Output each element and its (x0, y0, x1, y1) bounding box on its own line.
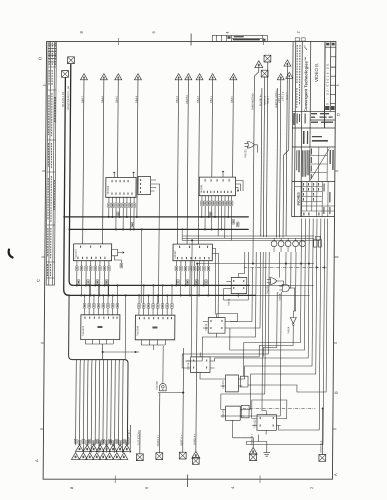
zone tick top x264 (262, 38, 264, 45)
connector triangle DB4.2 (196, 74, 203, 80)
svg-text:DB4 RA: DB4 RA (186, 95, 189, 104)
svg-text:MUX 4: MUX 4 (286, 92, 289, 100)
mesh gate output g3 down (221, 292, 281, 416)
svg-text:CRT 2 4: CRT 2 4 (282, 91, 285, 101)
IC U4 bottom pins flags wires (176, 261, 208, 267)
connector square SYNC-D (261, 70, 268, 77)
INCHES tolerance block grid (294, 182, 334, 217)
connector square SYNC (250, 454, 257, 461)
FF U41 stubs (186, 353, 221, 380)
IC U3 right lower stub wire (114, 256, 121, 263)
right mesh L path r1 (244, 219, 302, 377)
mesh left vertical s1 (238, 252, 244, 274)
connector square CLK-C (264, 55, 271, 62)
FF U42 stubs (220, 379, 242, 386)
IC U5 internal pin text (84, 317, 117, 328)
svg-text:74S163: 74S163 (107, 185, 110, 194)
mesh left vertical s2 (224, 252, 249, 300)
IC U3 right side box (112, 250, 118, 256)
bus AA1 horizontal (69, 294, 255, 296)
top document control table (212, 35, 267, 41)
junction dots U2 buses (201, 216, 203, 218)
FF U43 stubs (221, 410, 245, 438)
mesh left vertical s3 (252, 237, 254, 264)
IC U6 top wires to buses (139, 285, 172, 303)
oscillator circle 1 (271, 241, 277, 247)
svg-text:DB4 1: DB4 1 (210, 95, 213, 103)
FF U40 74S74 body (208, 318, 225, 334)
IC U2 pin net flags (201, 201, 204, 206)
IC U6 internal pin text (139, 317, 172, 329)
svg-text:RA BUS L 1/5: RA BUS L 1/5 (62, 91, 65, 107)
FF U40 stubs (203, 314, 230, 338)
wire fan lines to bottom connectors (76, 360, 124, 453)
wire DB4.0 (232, 79, 235, 177)
net box on bus2 right of U2 (232, 220, 235, 225)
right mesh L path r2 (230, 219, 306, 351)
wire DB4.4 (137, 79, 138, 217)
dash-dot net lower (243, 408, 316, 410)
bus flags above AA0 under U3 (77, 280, 80, 285)
punch/pen mark left edge (9, 250, 13, 258)
IC U1 bottom pins with flags (109, 197, 134, 203)
bottom triangle row1 pin numbers (74, 439, 128, 444)
oscillator circle 3 (285, 241, 291, 247)
wire BLANK vertical (261, 88, 262, 237)
bus flags above AA0 under U4 (177, 280, 180, 285)
wire U5 output down (102, 344, 104, 360)
oscillator circle 5 (299, 241, 305, 247)
connector J1-B square (62, 71, 69, 78)
right mesh vertical v2 (285, 252, 287, 285)
revision strip rotated text runs (48, 43, 56, 277)
connector triangle DB4.6 (100, 74, 107, 80)
svg-text:Convergent Technologies™: Convergent Technologies™ (303, 57, 308, 112)
IC U3 right lower stub flag (120, 263, 123, 268)
junction dots U5 top (84, 294, 86, 296)
zone ticks right border (336, 84, 340, 86)
wire SHRINK jog (253, 67, 259, 237)
gate box B2 (241, 405, 249, 418)
IC U3 right arrow stub (118, 252, 124, 254)
connector triangle DB4.1 (209, 74, 216, 80)
drawing border frame (43, 42, 336, 480)
net box on bus below U1 (117, 212, 120, 217)
IC U5 top wires through bus4 (85, 285, 118, 303)
right mesh L path r7 (247, 219, 325, 445)
IC U3 internal pin text (77, 246, 105, 259)
IC U3 74LS157 body (74, 244, 112, 261)
svg-text:DB4 3: DB4 3 (176, 95, 179, 103)
IC U5 top pins to flags and bus (84, 308, 117, 315)
svg-text:74S112: 74S112 (253, 419, 256, 428)
ground feed wire (258, 442, 266, 447)
zone tick top x119 (118, 38, 120, 45)
IC U4 74S157 body (173, 244, 212, 261)
connector triangle T11 (277, 74, 284, 80)
right mesh vertical v3 (289, 252, 291, 288)
IC U2 top stub (222, 171, 224, 177)
junction SHAD clock net (196, 263, 198, 265)
svg-text:74S175: 74S175 (222, 380, 225, 389)
wire feed gate RG (150, 184, 160, 303)
right mesh L path r5 (244, 219, 317, 410)
revision column rotated text (297, 45, 300, 108)
FF U41 74S74 body (191, 357, 211, 373)
wire UDATA (158, 393, 160, 454)
svg-text:DB4 6: DB4 6 (101, 95, 104, 103)
connector triangle DB4.0 (230, 74, 237, 80)
mesh wire ff2 link (210, 356, 259, 358)
svg-text:D: D (37, 57, 42, 60)
junction dots U3 buses (76, 284, 78, 286)
connector square VERT (179, 452, 186, 459)
IC U1 top stub pin 5 (113, 172, 115, 178)
IC U3 bottom pins flags wires (77, 261, 109, 266)
wire vertical left of U6 (124, 295, 127, 359)
connector triangle DB4.3 (175, 74, 182, 80)
svg-text:SHRINK(DB4)+: SHRINK(DB4)+ (251, 92, 254, 110)
connector J1-A square (68, 57, 75, 64)
thin hline net1 (182, 235, 314, 237)
FF U30 stubs (226, 274, 238, 298)
IC U1 74S163 body (106, 178, 136, 198)
connector triangle DB4.7 (80, 74, 87, 80)
bus AB1 horizontal (69, 228, 248, 230)
mesh long vertical m4 (262, 252, 268, 411)
junction bus AB0 wire B (63, 216, 65, 218)
IC U1b right stubs (150, 180, 156, 191)
wire SYNC (240, 438, 253, 448)
dash-dot net upper (244, 267, 328, 269)
middle cells of title block with diagonal (310, 147, 330, 182)
mesh wire ff4 side (252, 400, 287, 419)
junction dots U1 to buses (108, 216, 110, 218)
IC U4 right stubs to FF (212, 249, 216, 315)
FF U42 74S175 body (225, 375, 238, 392)
IC U1 top stub pin 7 (133, 172, 135, 178)
FF U41 pin text (193, 360, 207, 369)
svg-text:DB4 7: DB4 7 (81, 95, 84, 103)
gate box B1 (240, 376, 248, 387)
wire feed FF2 top (190, 240, 193, 357)
wire DB4.3 (177, 79, 178, 244)
thin hline net3 (182, 239, 320, 241)
hline clock net (197, 263, 314, 265)
mesh gate output g2 down (263, 292, 277, 357)
FF U30 pin text (233, 280, 244, 289)
FF U44 pin text (260, 417, 274, 427)
junction dots U6 top (138, 294, 140, 296)
svg-text:COMP VID +: COMP VID + (128, 429, 131, 444)
IC U1 pin net flags (108, 203, 111, 208)
connector triangle DB4.5 (115, 74, 122, 80)
mesh hline g1 out (279, 281, 283, 286)
junction dot feed U6 (141, 228, 143, 230)
oscillator circle 2 (278, 241, 284, 247)
IC U5 74LS374 body (81, 315, 120, 340)
wire T10 (286, 65, 287, 236)
title block outer lines (292, 42, 336, 217)
wire bus AB feed down left U6 (140, 229, 143, 303)
connector square CUT ETCH (136, 454, 143, 461)
wire aux right group (277, 88, 278, 238)
gate U31 74LS32 (267, 278, 281, 285)
wire A vertical to bus3 corner (69, 64, 75, 286)
svg-text:DB4 5: DB4 5 (115, 95, 118, 103)
IC U6 bottom pin stubs (141, 340, 165, 350)
net box on bus below U2 (209, 212, 212, 217)
IC U2 74S240 body (199, 177, 235, 196)
net box on bus2 below U1 (131, 222, 134, 227)
wire B vertical to bus4 corner (64, 77, 72, 295)
wire CUT ETCH (139, 430, 141, 454)
junction mesh dots (300, 263, 302, 265)
junction collector at bus AA1 (68, 294, 70, 296)
connector triangle T12 (286, 72, 293, 78)
wire from square CLK-C (266, 62, 267, 238)
FF U40 pin text (210, 320, 222, 329)
junction RG VERT (182, 392, 184, 394)
osc pin stubs (274, 239, 296, 253)
vertical net stub left of U2 flags (181, 228, 183, 240)
IC U1 internal pin text (111, 180, 132, 195)
junction link right (134, 351, 136, 353)
zone tick bottom x119 (114, 476, 116, 484)
bottom connector triangle row2 (71, 453, 79, 460)
wire DB4.1 (211, 79, 214, 177)
svg-text:SA12 +: SA12 + (267, 95, 270, 104)
mesh long vertical m5 (221, 252, 266, 410)
svg-text:VIDEO II.: VIDEO II. (314, 63, 319, 82)
right mesh vertical v4 (293, 252, 296, 311)
svg-text:A: A (333, 473, 338, 476)
svg-text:A: A (34, 459, 39, 462)
mesh long vertical m1 (230, 268, 252, 322)
svg-text:CUT ETCH +: CUT ETCH + (137, 430, 140, 445)
wire HSYNC (321, 409, 323, 456)
inverter U33 74S04 vertical (290, 311, 296, 332)
wire DB4.6 (103, 79, 104, 244)
svg-text:BLANK 4+: BLANK 4+ (259, 94, 262, 106)
connector triangle T10 (284, 60, 291, 66)
IC U4 internal pin text (177, 246, 210, 259)
connector square SHAD (192, 458, 199, 465)
svg-text:74LS08: 74LS08 (156, 381, 159, 390)
wire DB4.2 (198, 79, 199, 244)
IC U2 pin wires to buses (202, 206, 232, 241)
zone tick bottom x191 (187, 475, 189, 488)
FF U44 74S112 body (257, 415, 277, 431)
svg-text:DB4 2: DB4 2 (197, 95, 200, 103)
svg-text:74S240: 74S240 (200, 184, 203, 193)
wire DB4.7 (83, 79, 84, 244)
ground symbol (263, 446, 270, 456)
IC U6 top pins to flags (139, 309, 172, 316)
IC U2 bottom pins with flags (202, 196, 232, 201)
svg-text:74S175: 74S175 (222, 409, 225, 418)
svg-text:74S74: 74S74 (187, 362, 190, 370)
gate U32 74S08 (279, 285, 293, 292)
bus AB0 horizontal (64, 216, 249, 218)
right mesh L path r6 (279, 219, 321, 431)
mesh long vertical m2 (186, 252, 257, 361)
zone tick top x191 (190, 34, 192, 46)
svg-text:DB4 4: DB4 4 (135, 95, 138, 103)
svg-text:D: D (336, 113, 341, 116)
svg-text:B: B (334, 391, 339, 394)
zone tick bottom x264 (259, 476, 261, 484)
connector square UDATA (156, 453, 163, 460)
gate U23 74LS32 (244, 142, 257, 153)
junction dot left of U6 (125, 294, 127, 296)
IC U5 bottom pin stubs (85, 340, 113, 344)
mesh long vertical m6 (182, 252, 269, 368)
mesh wire inv down (259, 332, 293, 357)
thin hline net2 (182, 237, 314, 239)
wire DB4.5 (117, 79, 120, 178)
proprietary notice paragraph texture (296, 150, 309, 177)
top-right small marks beside table (295, 38, 300, 41)
svg-text:74LS244: 74LS244 (136, 325, 139, 336)
NEXT ASSY / USED ON rotated labels (311, 149, 334, 180)
crystal top stubs (315, 236, 320, 239)
bus AA0 horizontal (73, 284, 249, 286)
output fan collector wire (68, 295, 129, 445)
svg-text:C: C (36, 279, 41, 282)
svg-text:74LS157: 74LS157 (75, 248, 78, 259)
IC U1b pin text (140, 179, 141, 193)
left revision strip table (46, 42, 56, 286)
junction bus AB1 wire A (68, 228, 70, 230)
connector square HSYNC (319, 455, 326, 462)
right mesh L path r3 (215, 219, 310, 362)
IC U1 pin wires to buses (109, 208, 134, 230)
svg-text:UDATA 4 +: UDATA 4 + (157, 434, 160, 447)
wire VERT (182, 348, 185, 453)
svg-text:D - 52-02016-00: D - 52-02016-00 (325, 63, 329, 105)
svg-text:74S74: 74S74 (205, 323, 208, 331)
connector triangle SYNC (249, 447, 257, 454)
mesh wire sync chain (293, 288, 295, 311)
wire T11 (280, 79, 281, 238)
extra wire to last triangle (129, 425, 131, 453)
svg-text:DB4 0: DB4 0 (231, 95, 234, 103)
bottom connector triangle row1 (75, 445, 83, 452)
svg-text:ADV(TX)B RCV L 1/4: ADV(TX)B RCV L 1/4 (67, 86, 70, 110)
connector triangle SHRINK big (255, 61, 263, 68)
junction dot feed FF2 (191, 239, 193, 241)
oscillator circle 4 (293, 241, 299, 247)
IC U2 internal pin text (203, 179, 231, 193)
right mesh L path r4 (243, 219, 314, 380)
connector triangle DB4.4 (134, 74, 141, 80)
gate RG 74LS08 bullet (158, 346, 184, 393)
junction dot HSYNC dashdot (322, 407, 324, 409)
zone ticks left border (43, 84, 47, 86)
FF U30 74S74 body (231, 278, 247, 294)
IC U5 top net flags (83, 304, 119, 309)
junction dots U4 buses (175, 284, 177, 286)
net box thin line right of U2 (236, 222, 239, 227)
right mesh vertical v1 (278, 252, 280, 278)
svg-text:74S157: 74S157 (174, 250, 177, 259)
IC U2 right side stubs (235, 181, 243, 192)
svg-text:INCHES: INCHES (297, 192, 301, 206)
junction DB4.4 bus (136, 216, 138, 218)
mesh long vertical m3 (230, 252, 261, 328)
FF U43 74S175 body (225, 406, 240, 420)
wire DB4.RA (187, 79, 188, 244)
IC U6 74LS244 body (135, 315, 175, 340)
svg-text:+HSYNC 4: +HSYNC 4 (320, 440, 323, 453)
top table tiny text (227, 36, 265, 41)
connector triangle DB4.RA (185, 74, 192, 80)
IC U1b buffer body (138, 177, 151, 195)
thin hline U5-U6 link (103, 351, 140, 353)
svg-text:74S74: 74S74 (228, 298, 231, 306)
junction U5 output (102, 351, 104, 353)
svg-text:74S04: 74S04 (287, 326, 290, 334)
IC U6 top net flags (138, 304, 174, 309)
wire T12 (283, 78, 289, 237)
svg-text:SYNC 4 +: SYNC 4 + (251, 433, 254, 445)
tolerance cell specks (303, 183, 331, 216)
svg-text:74LS374: 74LS374 (82, 325, 85, 336)
right mesh L path r8 (248, 219, 328, 393)
sheet cells text (293, 43, 335, 144)
crystal component rects (314, 240, 317, 248)
wire from square SYNC-D (263, 77, 264, 238)
svg-text:SHAD 4 +: SHAD 4 + (193, 433, 196, 445)
connector triangle SHAD (192, 451, 200, 458)
FF U44 stubs (252, 411, 281, 442)
mesh wire ff1 top (216, 314, 237, 322)
svg-text:VERT 4 +: VERT 4 + (180, 435, 183, 446)
wire SHAD (196, 264, 197, 452)
svg-text:74LS32: 74LS32 (244, 149, 247, 158)
